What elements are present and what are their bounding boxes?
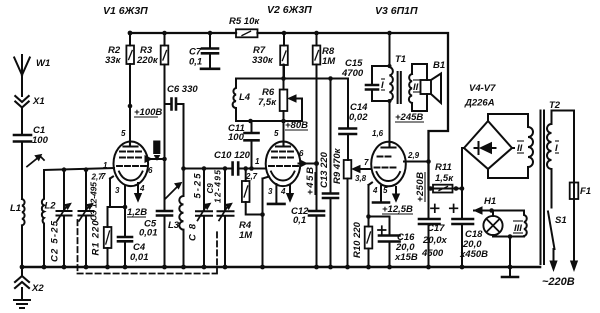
svg-text:L4: L4 [239, 92, 251, 103]
svg-text:R10 220: R10 220 [352, 221, 363, 258]
svg-text:L1: L1 [10, 203, 21, 214]
svg-text:В1: В1 [433, 60, 445, 71]
svg-text:+45В: +45В [305, 167, 316, 195]
svg-text:х15В: х15В [394, 252, 418, 263]
svg-text:X2: X2 [31, 283, 44, 294]
svg-text:III: III [514, 223, 522, 234]
svg-text:100: 100 [32, 135, 49, 146]
svg-text:+245В: +245В [395, 112, 423, 123]
svg-text:7: 7 [364, 158, 369, 167]
svg-text:20,0х: 20,0х [422, 235, 447, 246]
svg-text:33к: 33к [105, 55, 122, 66]
svg-text:0,01: 0,01 [139, 228, 158, 239]
svg-text:С8: С8 [188, 223, 199, 241]
svg-text:С10 120: С10 120 [214, 150, 251, 161]
svg-text:V3 6П1П: V3 6П1П [375, 5, 418, 17]
svg-text:5: 5 [383, 186, 388, 195]
svg-text:+12,5В: +12,5В [382, 204, 413, 215]
svg-text:5-25: 5-25 [193, 173, 204, 199]
svg-text:330к: 330к [252, 55, 274, 66]
svg-text:12-495: 12-495 [213, 170, 223, 203]
svg-text:~220В: ~220В [542, 276, 575, 288]
svg-text:100: 100 [228, 132, 245, 143]
svg-text:0,02: 0,02 [349, 112, 368, 123]
svg-text:II: II [413, 82, 419, 93]
svg-text:Д226А: Д226А [464, 98, 495, 109]
svg-text:3: 3 [268, 187, 273, 196]
svg-text:I: I [381, 80, 384, 91]
svg-text:4: 4 [280, 187, 286, 196]
svg-text:V4-V7: V4-V7 [469, 83, 496, 94]
svg-text:4700: 4700 [341, 68, 364, 79]
svg-text:6: 6 [299, 149, 304, 158]
svg-text:V2 6Ж3П: V2 6Ж3П [267, 4, 312, 16]
svg-text:С17: С17 [427, 223, 445, 234]
svg-text:1: 1 [255, 157, 260, 166]
svg-text:F1: F1 [580, 186, 591, 197]
svg-text:С6 330: С6 330 [167, 84, 198, 95]
svg-text:2,7: 2,7 [91, 173, 104, 182]
svg-text:2,7: 2,7 [245, 172, 258, 181]
svg-text:X1: X1 [32, 96, 45, 107]
svg-text:3: 3 [115, 186, 120, 195]
svg-text:R9 470к: R9 470к [332, 147, 343, 184]
svg-text:1М: 1М [239, 230, 253, 241]
svg-text:R1 220: R1 220 [91, 220, 102, 256]
svg-text:+250В: +250В [415, 172, 426, 202]
svg-text:V1 6Ж3П: V1 6Ж3П [103, 5, 148, 17]
svg-text:II: II [517, 143, 523, 154]
svg-text:1,5к: 1,5к [435, 173, 454, 184]
svg-text:W1: W1 [36, 58, 50, 69]
svg-text:Н1: Н1 [484, 196, 496, 207]
svg-text:7,5к: 7,5к [258, 97, 277, 108]
svg-text:С13 220: С13 220 [319, 151, 330, 188]
svg-text:L3: L3 [168, 220, 180, 231]
svg-text:S1: S1 [555, 215, 567, 226]
svg-text:х450В: х450В [459, 249, 488, 260]
svg-text:1,6: 1,6 [372, 129, 384, 138]
svg-text:0,01: 0,01 [130, 252, 149, 263]
svg-text:R11: R11 [435, 162, 452, 173]
svg-text:4500: 4500 [421, 248, 444, 259]
svg-text:1: 1 [103, 161, 108, 170]
svg-text:С3 12-495: С3 12-495 [89, 182, 99, 221]
svg-text:5: 5 [274, 129, 279, 138]
svg-text:5: 5 [121, 129, 126, 138]
svg-text:С2 5-25: С2 5-25 [50, 220, 61, 262]
svg-text:6: 6 [148, 166, 153, 175]
svg-text:4: 4 [139, 184, 145, 193]
svg-text:0,1: 0,1 [189, 57, 202, 68]
svg-text:1М: 1М [322, 56, 336, 67]
svg-text:+80В: +80В [285, 120, 308, 131]
svg-text:Т2: Т2 [549, 100, 561, 111]
svg-text:R5 10к: R5 10к [229, 16, 260, 27]
svg-text:I: I [555, 143, 558, 154]
svg-text:3,8: 3,8 [355, 174, 367, 183]
svg-text:Т1: Т1 [395, 54, 406, 65]
svg-text:1,2В: 1,2В [127, 207, 147, 218]
svg-text:220к: 220к [136, 55, 159, 66]
svg-text:L2: L2 [45, 201, 57, 212]
svg-text:4: 4 [372, 186, 378, 195]
svg-text:+100В: +100В [134, 107, 162, 118]
svg-text:2,9: 2,9 [407, 151, 420, 160]
svg-text:0,1: 0,1 [293, 215, 306, 226]
